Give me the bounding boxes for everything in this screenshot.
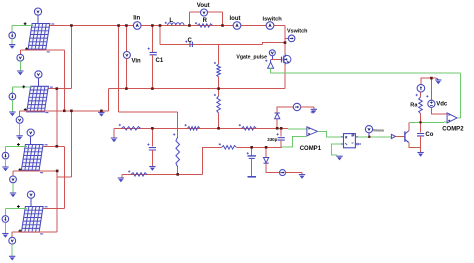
label C1: [156, 58, 164, 64]
wire diode D1 up: [277, 107, 293, 113]
node C branch at MOSFET: [284, 41, 287, 44]
wire buffer to base: [395, 135, 405, 137]
wire V3b to ground (green): [12, 183, 14, 193]
wire vertical PV1 bottom to row B: [63, 50, 65, 111]
wire current source IS3 top (green): [5, 146, 7, 152]
wire divider bottom: [218, 113, 220, 128]
ground below IS3: [2, 167, 8, 171]
wire PV2 bottom to voltmeter: [19, 111, 21, 117]
svg-text:Iout: Iout: [230, 16, 241, 22]
wire Vout loop left: [188, 12, 190, 25]
resistor divider R2: [217, 64, 221, 77]
solar panel PV4: [21, 207, 43, 233]
wire mid row y147: [236, 146, 281, 148]
op-amp COMP1: [307, 127, 318, 136]
node top bus x160: [159, 24, 162, 27]
diode D2: [264, 158, 269, 164]
wire vertical PV2 top to top bus: [70, 26, 72, 89]
solar panel PV2: [27, 86, 49, 112]
wire Q2 emitter: [409, 143, 421, 148]
wire COMP2 output riser (green): [460, 73, 462, 118]
ground stub top right: [435, 77, 436, 79]
wire IS5 to ground: [286, 172, 303, 174]
ground stub top right drop: [437, 78, 439, 80]
label 330p: [267, 137, 277, 142]
ground stub IS5: [301, 173, 303, 175]
svg-text:Vdc: Vdc: [436, 101, 448, 107]
ground stub upper: [313, 107, 315, 109]
wire cap C2 to ground: [151, 150, 153, 167]
resistor divider R3: [217, 96, 221, 113]
wire sense drop x118: [118, 26, 120, 113]
wire PV4 voltmeter stem: [30, 199, 32, 207]
node sense row x152: [151, 127, 154, 130]
voltmeter above PV2: [35, 71, 42, 78]
svg-text:C1: C1: [156, 58, 164, 64]
svg-text:Vin: Vin: [132, 58, 142, 64]
resistor R9: [242, 127, 257, 131]
wire PV4 plus terminal (green): [5, 207, 27, 209]
svg-text:Vout: Vout: [197, 3, 210, 9]
ammeter Iout: [233, 22, 241, 30]
wire V1b to ground (green): [19, 61, 21, 71]
wire Co bottom stub: [420, 136, 422, 147]
polarity mark capacitor C: [185, 41, 187, 43]
wire riser to mid row: [203, 147, 222, 174]
node return bus x218: [217, 87, 220, 90]
polarity mark pulse source: [265, 60, 267, 62]
svg-text:C: C: [188, 38, 193, 44]
wire PV3 plus terminal (green): [6, 145, 27, 147]
ground bar below C3: [248, 176, 257, 178]
wire Vout loop top: [189, 11, 222, 13]
wire Ro bottom: [420, 114, 422, 123]
wire cap C3 to bar ground: [251, 158, 253, 176]
node mid row x251: [250, 146, 253, 149]
polarity mark R5: [128, 170, 130, 172]
wire IS4 to ground (green): [4, 222, 6, 233]
wire PV1 bottom to voltmeter: [19, 50, 21, 54]
node PV2 top junction: [56, 87, 59, 90]
node sense row x218: [217, 127, 220, 130]
wire C branch left drop: [159, 26, 161, 45]
node PV4 bottom plus tick: [19, 230, 22, 233]
voltage source Vdc: [428, 100, 435, 107]
wire current source IS4 top (green): [4, 208, 6, 215]
wire C branch horizontal: [160, 43, 263, 45]
wire PV4 bottom to voltmeter: [11, 232, 13, 237]
current source IS1: [9, 32, 16, 39]
label Iout: [230, 16, 241, 22]
wire MOSFET source: [284, 65, 286, 89]
wire PV2 bottom rail (row B): [20, 110, 109, 112]
voltmeter above PV1: [34, 8, 41, 15]
wire PV2 plus terminal drop (green): [11, 87, 13, 89]
wire diode D1 stub: [276, 119, 278, 129]
ground below V3b: [10, 193, 16, 197]
wire current source IS2 top (green): [11, 89, 13, 93]
ground below V4b: [9, 256, 15, 260]
capacitor Co: [417, 134, 424, 136]
svg-text:Co: Co: [425, 132, 433, 138]
label COMP2: [442, 127, 464, 133]
svg-text:Vgate_pulse: Vgate_pulse: [236, 54, 267, 60]
wire 330p bottom stub: [280, 140, 282, 147]
label Iswitch: [263, 16, 283, 22]
resistor Ro: [419, 97, 423, 114]
capacitor C2: [149, 148, 156, 150]
wire V4b to ground (green): [11, 244, 13, 256]
wire Vin bottom: [125, 59, 127, 89]
ground stub bottom row: [121, 174, 123, 178]
polarity mark inductor L: [165, 22, 167, 24]
wire vertical PV2-top down to PV3-top: [56, 89, 58, 147]
label L: [169, 18, 173, 24]
voltmeter above PV4: [27, 191, 34, 198]
ground below V1b: [17, 71, 23, 75]
svg-text:L: L: [169, 18, 173, 24]
voltmeter above PV3: [27, 129, 34, 136]
wire jog at y177: [57, 176, 71, 178]
wire cap C2 stub: [151, 128, 153, 146]
wire top bus: [50, 25, 285, 27]
node sense row x277: [276, 127, 279, 130]
wire sense horizontal y112: [119, 111, 178, 113]
wire C1 bottom: [151, 55, 153, 89]
polarity mark Ro: [416, 94, 418, 96]
label R: [203, 18, 208, 24]
wire return bus: [108, 88, 285, 90]
voltmeter Vswitch: [288, 35, 295, 42]
ground top right: [435, 80, 441, 84]
wire block output (green): [358, 136, 391, 138]
ground upper branch: [311, 109, 317, 113]
wire current source IS1 top (green): [11, 26, 13, 32]
node top bus x118: [117, 24, 120, 27]
ground below V2b: [16, 136, 22, 140]
polarity mark R9: [239, 124, 241, 126]
wire V2b to ground (green): [19, 123, 21, 136]
wire Co top stub: [420, 122, 422, 132]
pulse source Vgp triangle: [268, 60, 274, 68]
wire C1 top: [151, 26, 153, 53]
wire 330p top stub: [280, 128, 282, 136]
current source IS3: [2, 152, 9, 159]
resistor R6: [222, 146, 237, 150]
wire COMP1 output (green): [318, 131, 342, 137]
svg-text:COMP2: COMP2: [442, 127, 464, 133]
ammeter Iswitch: [266, 22, 274, 30]
ground below IS2: [9, 112, 15, 116]
polarity mark R6: [219, 143, 221, 145]
node PV4 minus tick: [45, 206, 48, 208]
wire cap C3 stub: [251, 147, 253, 155]
node row B x71: [70, 110, 73, 113]
node PV3 bottom junction: [56, 170, 59, 173]
voltmeter Vmono: [365, 126, 372, 133]
ground sense row: [111, 138, 117, 142]
wire diode D2 down: [266, 163, 279, 172]
node ramp rail: [419, 121, 421, 123]
capacitor C: [190, 42, 192, 47]
node return bus x126: [125, 87, 128, 90]
wire Vdc bottom: [431, 108, 444, 114]
node PV1 minus tick: [51, 23, 54, 25]
power tick COMP1: [311, 111, 314, 114]
ground stub sense row: [113, 128, 115, 138]
svg-text:Vmono: Vmono: [373, 129, 384, 133]
label Vmono: [373, 129, 384, 133]
resistor divider R4: [176, 137, 180, 167]
diode D1: [275, 113, 280, 119]
node PV2 minus tick: [50, 86, 53, 88]
ground IS5 branch: [299, 175, 305, 179]
node top bus x126: [125, 24, 128, 27]
node sense row x281: [280, 127, 283, 130]
meter V sense upper: [293, 103, 300, 110]
wire ramp rail (green): [409, 121, 444, 123]
label Vswitch: [287, 29, 307, 35]
svg-text:Iin: Iin: [133, 16, 140, 22]
current source IS6: [417, 84, 425, 92]
node PV4 bottom minus tick: [40, 233, 43, 235]
wire gate meter stub: [271, 56, 273, 60]
node row B ground: [100, 110, 103, 113]
wire bottom row y174: [122, 173, 203, 175]
node PV3 top junction: [56, 145, 59, 148]
wire PV2 plus terminal (green): [12, 86, 32, 88]
voltmeter V4b below PV4: [9, 237, 16, 244]
wire IS3 to ground (green): [5, 159, 7, 167]
node PV1 plus tick: [24, 22, 27, 25]
wire sense drop x177 lower: [177, 167, 179, 174]
wire Q2 collector: [408, 122, 410, 131]
current source IS4: [2, 216, 9, 223]
node PV2 bottom minus tick: [45, 112, 48, 114]
node top bus junction x71: [70, 24, 73, 27]
wire vertical row B down to jog: [70, 111, 72, 177]
node PV3 bottom minus tick: [40, 172, 43, 174]
node Vdc top: [430, 77, 433, 80]
wire PV1 plus terminal (green): [12, 25, 33, 27]
current source IS2: [9, 93, 16, 100]
voltmeter Vgate_pulse meter: [269, 50, 275, 56]
voltmeter Vout: [201, 9, 208, 16]
wire mid row green tail: [281, 137, 306, 148]
wire PV3 bottom to voltmeter: [12, 171, 14, 176]
polarity mark R7: [119, 124, 121, 126]
ground below IS1: [9, 45, 15, 49]
wire meter to ground upper: [301, 106, 314, 108]
current source IS5: [280, 170, 286, 176]
ground bottom row: [118, 178, 124, 182]
wire sense drop x177 upper: [177, 112, 179, 137]
polarity mark divider R2: [214, 62, 216, 64]
svg-text:Ra: Ra: [410, 103, 418, 109]
wire IS2 to ground (green): [11, 100, 13, 112]
wire divider top: [218, 44, 220, 64]
wire block reset (green): [331, 144, 341, 155]
wire Vin top: [125, 26, 127, 52]
node PV2 plus tick: [22, 85, 25, 88]
wire COMP2 plus stub (green): [444, 121, 447, 123]
wire PV1 top to main bus: [49, 25, 51, 27]
svg-text:Iswitch: Iswitch: [263, 16, 283, 22]
node row B x64: [63, 110, 66, 113]
transistor Q2: [405, 131, 409, 143]
voltmeter V3b below PV3: [10, 176, 17, 183]
wire vertical PV3-top down to PV4-top: [64, 146, 66, 208]
polarity mark Vdc source: [426, 95, 428, 97]
wire diode D2 stub: [265, 147, 267, 157]
svg-text:COMP1: COMP1: [300, 146, 322, 152]
mosfet Q1: [281, 54, 291, 65]
resistor R8: [187, 127, 199, 131]
polarity mark divider R3: [214, 94, 216, 96]
node top bus x189: [188, 24, 191, 27]
wire gate green rail: [271, 72, 461, 74]
node PV3 plus tick: [17, 143, 20, 146]
polarity mark sense R4: [173, 133, 175, 135]
label Vdc: [436, 101, 448, 107]
voltmeter V2b below PV2: [16, 117, 23, 124]
capacitor C1: [150, 52, 157, 54]
node bottom row x177: [176, 173, 179, 176]
wire PV3 voltmeter stem: [30, 136, 32, 144]
wire MOSFET drain: [284, 26, 286, 54]
wire IS6 top: [421, 78, 435, 84]
label COMP1: [300, 146, 322, 152]
voltmeter V1b below PV1: [17, 54, 24, 61]
wire Co ground stem: [420, 147, 422, 152]
wire IS1 to ground (green): [11, 39, 13, 45]
label Ra: [410, 103, 418, 109]
svg-text:Vswitch: Vswitch: [287, 29, 307, 35]
ground below Co: [417, 153, 423, 157]
node return bus x152: [151, 87, 154, 90]
wire riser row B to return bus: [107, 89, 109, 111]
wire Ro top to source: [420, 92, 422, 97]
ground block reset: [336, 156, 342, 160]
label Iin: [133, 16, 140, 22]
node PV4 plus tick: [17, 205, 20, 208]
wire Vswitch stub: [285, 37, 288, 39]
capacitor 330p: [278, 138, 285, 140]
voltmeter Vin: [123, 52, 130, 59]
wire sense row y128: [114, 127, 288, 129]
polarity mark capacitor C1: [148, 48, 150, 50]
wire PV3 top rail: [43, 145, 65, 147]
wire gate: [271, 59, 281, 61]
ground below IS4: [2, 234, 8, 238]
wire vertical PV3-bottom down to PV4-bottom: [56, 171, 58, 232]
wire C branch jog: [263, 43, 286, 45]
solar panel PV1: [28, 24, 50, 50]
solar panel PV3: [21, 145, 43, 171]
wire PV1 voltmeter stem: [37, 15, 39, 23]
label Co: [425, 132, 433, 138]
buffer U3: [391, 134, 395, 138]
polarity mark R8: [185, 124, 187, 126]
node PV1 bottom plus tick: [25, 48, 28, 51]
label C: [188, 38, 193, 44]
resistor R5: [131, 173, 147, 177]
node PV3 minus tick: [45, 144, 48, 146]
monostable block U2: [341, 134, 361, 148]
wire PV4 bottom rail: [12, 231, 57, 233]
ground stub row B: [100, 111, 102, 113]
node PV2 bottom plus tick: [24, 108, 27, 111]
polarity mark capacitor 330p: [277, 133, 279, 135]
label Vin: [132, 58, 142, 64]
wire Vmono stub: [368, 133, 370, 137]
wire COMP2 output: [457, 117, 461, 119]
wire pulse source to green rail: [270, 68, 272, 73]
wire sense row green tail: [288, 128, 306, 130]
label Vgate_pulse: [236, 54, 267, 60]
node PV1 bottom minus tick: [47, 51, 50, 53]
polarity mark capacitor C3: [247, 152, 249, 154]
label Vout: [197, 3, 210, 9]
ground below C2: [149, 167, 155, 171]
ground on row B: [98, 112, 104, 116]
node PV3 bottom plus tick: [19, 168, 22, 171]
inductor L: [168, 23, 184, 26]
wire PV4 top rail: [43, 207, 65, 209]
wire PV1 bottom rail: [20, 49, 64, 51]
wire Vout loop right: [222, 12, 224, 25]
wire COMP2 minus stub: [444, 113, 447, 115]
svg-text:R: R: [203, 18, 208, 24]
polarity mark resistor R: [195, 22, 197, 24]
wire divider mid upper: [218, 77, 220, 96]
wire PV3 bottom rail: [13, 170, 57, 172]
node top bus x222: [221, 24, 224, 27]
capacitor C3: [248, 156, 257, 159]
resistor R7: [121, 127, 140, 131]
node top bus x152: [151, 24, 154, 27]
wire Vdc top: [430, 78, 432, 100]
svg-text:330p: 330p: [267, 137, 277, 142]
node mid row x266: [265, 146, 268, 149]
wire PV2 voltmeter stem: [37, 78, 39, 86]
wire PV2 top rail: [48, 88, 71, 90]
ammeter Iin: [133, 22, 141, 30]
resistor R: [197, 24, 212, 28]
polarity mark capacitor C2: [147, 143, 149, 145]
node block output: [368, 136, 370, 138]
op-amp COMP2: [447, 113, 457, 123]
